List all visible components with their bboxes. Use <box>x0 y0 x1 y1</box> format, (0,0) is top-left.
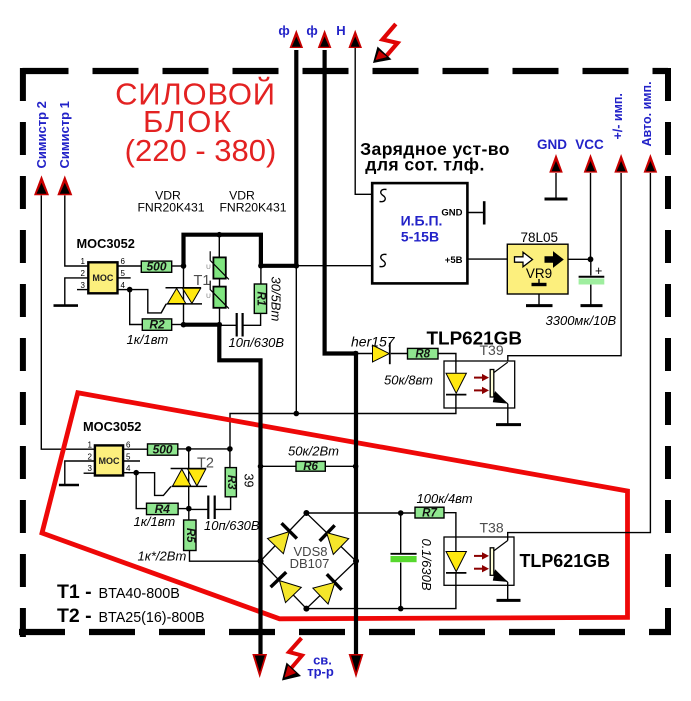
resistor R2 <box>142 319 171 330</box>
svg-text:T1 -: T1 - <box>57 581 92 603</box>
wire: C2 left link <box>189 508 208 510</box>
svg-text:T2 -: T2 - <box>57 605 92 627</box>
svg-text:50к/8вт: 50к/8вт <box>384 373 433 388</box>
wire: R6 left link <box>261 465 297 467</box>
svg-text:500: 500 <box>146 260 166 274</box>
wire: PSU GND terminal <box>467 212 483 214</box>
wire: R3 bottom to capacitor C2 <box>215 497 231 510</box>
node: VDR top tap <box>217 232 223 238</box>
node: R6 left junction <box>258 464 264 470</box>
wire: R2 right end to T1 bottom junction <box>172 324 184 326</box>
svg-text:1к/1вт: 1к/1вт <box>134 514 176 529</box>
node: T1 MT2 / R gate junction <box>181 263 187 269</box>
terminal arrow phase 2 <box>318 30 332 48</box>
wire: main right power line down to transformer arrow <box>354 351 358 656</box>
red protection zone outline polygon <box>42 393 628 619</box>
svg-text:R5: R5 <box>184 528 196 543</box>
resistor R3 (vertical) <box>225 468 236 497</box>
svg-text:3300мк/10В: 3300мк/10В <box>546 313 617 328</box>
node: bridge bottom <box>303 606 309 612</box>
node: her157 junction on main line <box>353 351 359 357</box>
resistor R8 <box>408 348 439 359</box>
wire: U2 pin5 stub <box>123 460 140 462</box>
node: U2 pin4 gate junction <box>133 470 139 476</box>
svg-text:GND: GND <box>441 208 462 219</box>
resistor 500 (U1 series) <box>141 261 171 272</box>
wire: MOC3052 U2 pin2 to ground <box>65 461 95 485</box>
svg-text:ф: ф <box>278 23 289 38</box>
svg-text:her157: her157 <box>351 334 396 350</box>
VR9 inner ground symbol <box>538 279 540 284</box>
node: T1 bottom right junction <box>217 322 223 328</box>
wire: T1 bottom thick path down to bridge and bottom arrow <box>184 325 261 656</box>
wire: R7 to T38 LED anode <box>444 513 456 552</box>
svg-text:0.1/630В: 0.1/630В <box>419 539 434 591</box>
capacitor C1 10n/630V plates <box>237 313 243 337</box>
wire: phase2 thick line down and over to her157 junction <box>325 50 356 354</box>
border frame dashed left <box>20 68 26 637</box>
svg-text:5: 5 <box>121 269 126 278</box>
resistor R7 <box>415 507 444 518</box>
node: R6 right junction <box>353 464 359 470</box>
wire: T1 top thick link with VDR tap <box>184 235 261 266</box>
wire: U2 pin6 to resistor 500 <box>123 448 147 450</box>
optocoupler T39 TLP621GB <box>444 361 515 408</box>
svg-text:Симистр 2: Симистр 2 <box>34 101 49 168</box>
wire: R3 top link <box>229 449 231 468</box>
wire: U2 pin4 to gate node <box>123 472 136 474</box>
wire: capacitor C3 vertical links <box>400 513 402 609</box>
op-coupler MOC3052 U2 body <box>95 445 123 475</box>
triac T1 <box>166 288 203 304</box>
PSU sine symbol bottom <box>380 254 387 266</box>
wire: R4 branch <box>136 473 146 509</box>
wire: bridge plus output to R7 <box>306 512 415 514</box>
resistor R4 <box>147 503 179 514</box>
triac T2 <box>171 469 208 487</box>
svg-text:50к/2Вт: 50к/2Вт <box>288 443 339 458</box>
power supply unit I.B.P. box <box>372 183 467 283</box>
svg-text:MOC: MOC <box>99 456 120 466</box>
wire: PSU +5B output to 78L05 <box>467 258 507 260</box>
wire: capacitor C4 links <box>590 259 592 305</box>
node: U1 pin4 gate junction <box>127 287 133 293</box>
svg-text:3: 3 <box>88 464 93 473</box>
ground bar GND arrow <box>545 198 568 201</box>
terminal arrow Avto pulse <box>644 154 658 173</box>
wire: T2 gate zigzag <box>136 473 171 496</box>
wire: 500 output bus to R3 <box>178 448 230 450</box>
wire: R8 to T39 LED anode <box>438 354 456 373</box>
svg-text:1к*/2Вт: 1к*/2Вт <box>138 549 187 564</box>
ground bar T39 <box>496 423 521 426</box>
wire: capacitor C1 left link <box>219 324 236 326</box>
wire: 78L05 ground lead <box>538 294 540 305</box>
svg-text:T2: T2 <box>197 456 214 472</box>
svg-text:BTA40-800В: BTA40-800В <box>99 586 180 602</box>
svg-text:100к/4вт: 100к/4вт <box>417 491 473 506</box>
wire: T39 collector up to pulse line <box>508 173 621 361</box>
terminal arrow +/- pulse <box>614 154 628 173</box>
wire: bridge minus output <box>306 608 400 610</box>
terminal arrow Simistr 2 <box>34 175 49 195</box>
svg-text:1: 1 <box>88 441 93 450</box>
optocoupler T38 TLP621GB <box>444 537 514 585</box>
VR9 output arrow (solid) <box>545 252 563 267</box>
node: bridge left <box>258 558 264 564</box>
svg-text:6: 6 <box>121 257 126 266</box>
svg-text:U: U <box>206 293 211 300</box>
svg-text:Симистр 1: Симистр 1 <box>57 101 72 168</box>
wire: R5 top link <box>188 509 190 520</box>
node: R3 top junction <box>227 446 233 452</box>
wire: R6 right link <box>325 465 356 467</box>
bottom arrow to triac load (black) <box>252 654 267 678</box>
bottom arrow to transformer (red) <box>349 654 364 678</box>
border frame dashed bottom <box>19 629 671 635</box>
wire: MOC3052 U1 pin3 stub <box>77 289 88 291</box>
bridge diode D4 bottom-right <box>313 574 342 604</box>
svg-text:R6: R6 <box>303 461 318 473</box>
svg-text:30/5Вт: 30/5Вт <box>268 277 283 322</box>
wire: MOC3052 U1 pin6 to resistor 500 <box>118 265 142 267</box>
node: R7 branch top <box>398 510 404 516</box>
svg-text:ф: ф <box>306 23 317 38</box>
svg-text:Авто. имп.: Авто. имп. <box>640 81 654 146</box>
node: cathode bus tee on phase1 <box>294 411 300 417</box>
VR9 input arrow (open) <box>515 252 533 267</box>
wire: 78L05 output to VCC node <box>568 258 591 260</box>
svg-text:GND: GND <box>537 137 567 152</box>
lightning bolt top <box>373 24 398 63</box>
svg-text:5: 5 <box>126 452 131 461</box>
svg-text:R3: R3 <box>225 475 237 490</box>
wire: resistor 500 output to T1 <box>172 265 184 267</box>
svg-text:3: 3 <box>81 281 86 290</box>
node A: phase1 / T1 output junction <box>294 263 300 269</box>
wire: VCC line up to arrow <box>590 173 592 259</box>
bridge diode D1 top-left <box>268 523 297 554</box>
svg-text:тр-р: тр-р <box>307 664 334 679</box>
svg-text:BTA25(16)-800В: BTA25(16)-800В <box>99 610 205 626</box>
wire: PSU lower AC input from phase node <box>296 265 372 267</box>
ground bar C4 <box>581 304 603 307</box>
svg-text:4: 4 <box>126 464 131 473</box>
svg-text:DB107: DB107 <box>290 556 330 571</box>
varistor VDR1 <box>206 251 229 279</box>
varistor VDR2 <box>206 281 229 309</box>
svg-text:500: 500 <box>153 442 173 456</box>
svg-text:2: 2 <box>81 269 86 278</box>
svg-text:И.Б.П.: И.Б.П. <box>401 212 443 228</box>
svg-text:R2: R2 <box>149 318 165 332</box>
node: R1 top corner junction <box>258 263 264 269</box>
svg-text:VCC: VCC <box>575 137 604 152</box>
svg-text:10п/630В: 10п/630В <box>229 335 285 350</box>
svg-text:78L05: 78L05 <box>521 230 559 245</box>
svg-text:FNR20K431: FNR20K431 <box>137 200 204 214</box>
op-coupler MOC3052 U1 body <box>88 262 117 293</box>
svg-text:1: 1 <box>81 257 86 266</box>
wire: T38 collector to Avto line <box>508 173 651 541</box>
terminal arrow Simistr 1 <box>57 175 72 195</box>
svg-text:VR9: VR9 <box>526 266 552 281</box>
svg-text:5-15В: 5-15В <box>401 229 439 245</box>
wire: T39 LED cathode return bus <box>230 395 456 449</box>
wire: MOC3052 U1 pin1 from Simistr1 arrow <box>65 195 89 266</box>
wire: MOC3052 U2 pin1 from Simistr2 line <box>41 195 95 449</box>
svg-text:+5B: +5B <box>445 255 463 266</box>
PSU GND terminal bar <box>483 201 486 224</box>
svg-text:2: 2 <box>88 452 93 461</box>
ground bar 78L05 <box>526 304 553 307</box>
node: bridge right <box>353 558 359 564</box>
terminal arrow GND <box>549 154 563 173</box>
capacitor C4 3300uF plates <box>579 276 605 278</box>
svg-text:MOC3052: MOC3052 <box>77 236 135 251</box>
wire: R5 bottom to bridge left node <box>190 551 261 562</box>
svg-text:U: U <box>206 264 211 271</box>
wire: neutral N line from arrow down to PSU top input <box>355 48 372 194</box>
resistor R1 (vertical) <box>254 284 266 313</box>
svg-text:MOC3052: MOC3052 <box>83 419 141 434</box>
svg-text:R7: R7 <box>422 508 437 520</box>
svg-text:T1: T1 <box>194 273 211 289</box>
svg-text:для сот. тлф.: для сот. тлф. <box>365 155 484 175</box>
bridge rectifier VDS8 DB107 diamond <box>261 513 357 609</box>
ground bar MOC3052 U2 <box>59 484 79 487</box>
svg-text:+/- имп.: +/- имп. <box>611 93 625 139</box>
wire: R1 top link <box>260 266 262 284</box>
capacitor C2 10n/630V plates <box>208 496 214 520</box>
svg-text:R1: R1 <box>255 291 267 306</box>
wire: GND arrow lead <box>555 173 557 198</box>
wire: T1 output thick link to phase1 node <box>259 264 296 268</box>
svg-text:+: + <box>595 264 602 278</box>
capacitor C3 0.1/630V plates <box>391 553 417 555</box>
wire: VDR chain vertical links <box>218 235 220 325</box>
node: T2 top junction <box>186 446 192 452</box>
node: T1 bottom left junction <box>181 322 187 328</box>
bridge diode D2 top-right <box>320 525 349 554</box>
wire: phase1 thin continuation down to cathode bus tee <box>295 266 297 414</box>
wire: R1 bottom to capacitor C1 <box>243 313 261 325</box>
svg-text:4: 4 <box>121 281 126 290</box>
ground bar T38 <box>497 599 521 602</box>
svg-text:FNR20K431: FNR20K431 <box>219 200 286 214</box>
svg-text:T38: T38 <box>480 520 504 536</box>
ground bar MOC3052 U1 <box>54 304 79 307</box>
svg-text:10п/630В: 10п/630В <box>204 518 260 533</box>
resistor R6 <box>296 461 325 471</box>
svg-text:R8: R8 <box>415 349 430 361</box>
svg-text:1к/1вт: 1к/1вт <box>127 332 169 347</box>
svg-text:(220 - 380): (220 - 380) <box>125 133 277 168</box>
resistor 500 (U2 series) <box>148 444 178 455</box>
svg-text:TLP621GB: TLP621GB <box>520 550 611 571</box>
wire: phase1 thick drop to T1 node <box>294 50 298 266</box>
terminal arrow phase 1 <box>290 30 304 48</box>
PSU sine symbol top <box>380 189 387 201</box>
node: R4/R5/C2 junction <box>186 506 192 512</box>
wire: T1 gate zigzag <box>130 290 167 313</box>
wire: T38 emitter to ground <box>507 582 509 600</box>
wire: MOC3052 U2 pin3 stub <box>84 472 95 474</box>
wire: T1 main vertical through triac <box>183 266 185 325</box>
svg-text:MOC: MOC <box>92 273 113 283</box>
wire: T38 LED cathode return to minus rail <box>401 573 456 609</box>
svg-text:TLP621GB: TLP621GB <box>427 328 523 349</box>
wire: MOC3052 U1 pin5 stub <box>118 277 131 279</box>
wire: R4 right link <box>178 508 189 510</box>
wire: MOC3052 U1 pin2 to ground <box>65 278 89 305</box>
lightning bolt bottom <box>282 638 302 681</box>
diode her157 <box>356 343 408 364</box>
bridge diode D3 bottom-left <box>271 572 302 603</box>
regulator 78L05 VR9 body <box>507 244 568 294</box>
node: bridge top <box>303 510 309 516</box>
wire: T39 emitter to ground <box>507 404 509 424</box>
wire: T2 main vertical <box>188 449 190 509</box>
wire: MOC3052 U1 pin4 to gate node <box>118 289 130 291</box>
wire: R2 branch down from gate node <box>130 290 143 325</box>
svg-text:39: 39 <box>242 474 256 488</box>
resistor R5 (vertical) <box>184 520 196 551</box>
svg-text:6: 6 <box>126 441 131 450</box>
node: VCC output junction <box>588 256 594 262</box>
terminal arrow VCC <box>584 154 598 173</box>
node: minus rail junction <box>398 606 404 612</box>
terminal arrow neutral <box>348 30 362 48</box>
svg-text:Н: Н <box>336 23 345 38</box>
border frame dashed top <box>23 68 669 74</box>
border frame dashed right <box>665 68 671 634</box>
